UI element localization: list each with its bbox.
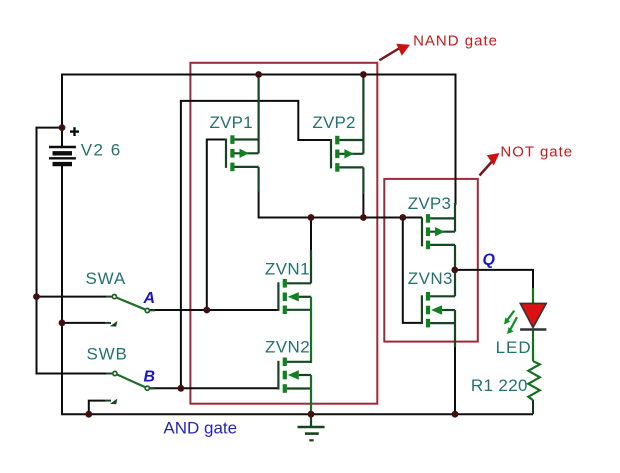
resistor R1 — [528, 361, 540, 400]
svg-text:SWA: SWA — [86, 269, 127, 288]
wire Q to LED — [455, 270, 533, 290]
wire resistor to bottom wire — [532, 400, 534, 414]
svg-text:NOT gate: NOT gate — [500, 143, 573, 160]
annotation arrow NAND — [379, 44, 410, 61]
wire VDD top rail — [62, 75, 456, 206]
wire ZVP3 source from rail — [455, 75, 457, 206]
svg-text:SWB: SWB — [87, 345, 128, 364]
transistor ZVP3 — [422, 203, 455, 270]
svg-text:V2 6: V2 6 — [81, 141, 122, 160]
transistor ZVP1 — [226, 75, 259, 193]
transistor ZVP2 — [331, 75, 363, 195]
junction node Q — [451, 267, 458, 274]
svg-text:ZVN2: ZVN2 — [265, 338, 310, 357]
transistor ZVN2 — [278, 358, 311, 415]
junction battery minus / SWA lower throw — [59, 320, 66, 327]
junction node A / ZVP1 gate branch — [203, 307, 210, 314]
annotation arrow NOT — [480, 153, 500, 176]
svg-text:R1 220: R1 220 — [471, 376, 528, 395]
wire ZVP2 drain lower — [362, 193, 364, 218]
svg-text:NAND gate: NAND gate — [413, 32, 498, 49]
svg-text:LED: LED — [496, 338, 532, 357]
wire node A net — [150, 309, 278, 311]
svg-text:B: B — [144, 369, 156, 386]
switch SWA — [105, 295, 155, 327]
wire output to ZVN3 gate — [403, 218, 422, 323]
wire A to ZVP1 gate — [207, 140, 226, 311]
junction ground wire / ZVN3 source — [452, 411, 459, 418]
junction ground wire / SWB lower throw — [85, 411, 92, 418]
wire ZVN1 drain upper — [310, 218, 312, 253]
svg-text:ZVP1: ZVP1 — [210, 113, 253, 132]
svg-text:ZVP2: ZVP2 — [312, 113, 355, 132]
junction node B / ZVP2 gate branch — [178, 385, 185, 392]
wire SWA top throw — [37, 296, 107, 298]
NAND gate box — [190, 63, 377, 404]
transistor ZVN1 — [278, 250, 311, 363]
wire B to ZVP2 gate — [181, 101, 331, 388]
wire NAND output net — [259, 191, 422, 218]
svg-text:ZVN1: ZVN1 — [265, 260, 310, 279]
svg-text:A: A — [143, 290, 156, 307]
svg-text:AND gate: AND gate — [163, 419, 237, 438]
wire battery plus to left branch — [37, 128, 107, 374]
svg-text:ZVP3: ZVP3 — [408, 194, 451, 213]
wire SWB bottom throw — [89, 401, 105, 415]
svg-text:Q: Q — [483, 252, 496, 269]
junction NOT input gates — [399, 214, 406, 221]
ground — [298, 414, 325, 440]
wire ZVN3 source to bottom — [454, 345, 456, 414]
wire SWA bottom throw — [62, 322, 105, 324]
junction VDD rail / ZVP1 source — [255, 71, 262, 78]
junction V+ / SWA throw — [33, 293, 40, 300]
switch SWB — [105, 371, 155, 404]
wire battery minus down — [62, 166, 533, 414]
svg-text:ZVN3: ZVN3 — [408, 269, 453, 288]
junction battery positive node — [59, 124, 66, 131]
junction NAND output / ZVP2 drain — [360, 214, 367, 221]
junction NAND output / ZVN1 drain — [308, 214, 315, 221]
transistor ZVN3 — [422, 270, 455, 347]
wire node B net — [150, 387, 278, 389]
junction ground wire / NMOS source — [308, 411, 315, 418]
junction VDD rail / ZVP2 source — [360, 71, 367, 78]
battery plus sign — [70, 127, 79, 136]
NOT gate box — [384, 179, 478, 342]
LED D1 — [504, 288, 546, 361]
battery V2 — [49, 147, 76, 164]
